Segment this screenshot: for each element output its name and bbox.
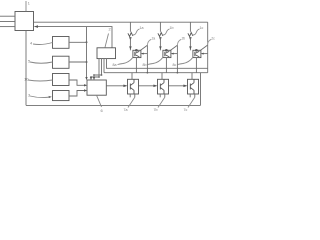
- box C: [53, 74, 70, 86]
- arrowhead jog B: [93, 77, 95, 80]
- phase leg cell a: [113, 22, 156, 112]
- transistor glyph: [165, 51, 170, 57]
- transistor glyph: [135, 51, 140, 57]
- wire emitter down to bus: [195, 58, 197, 73]
- label 8a leader hook: [118, 57, 133, 64]
- svg-text:7c: 7c: [184, 108, 188, 112]
- wire collector diagonal: [140, 45, 148, 51]
- wire collector diagonal: [200, 45, 208, 51]
- switch box Q2: [163, 50, 171, 57]
- left frame wire: [25, 31, 27, 106]
- svg-text:5: 5: [28, 59, 31, 64]
- phase leg cell b: [143, 22, 186, 112]
- box U2 controller: [97, 48, 116, 59]
- arrowhead gate into box: [141, 53, 144, 55]
- wire gate feed: [172, 53, 178, 55]
- wire gate feed: [202, 53, 208, 55]
- thyristor symbol squiggle: [188, 33, 193, 37]
- driver pin stub right: [134, 94, 136, 97]
- wire branch from feedback to center box: [86, 27, 88, 80]
- wire box A out: [69, 41, 87, 43]
- svg-text:2c: 2c: [211, 37, 215, 41]
- driver pin stub left: [189, 94, 191, 97]
- driver pin stub left: [129, 94, 131, 97]
- svg-text:1c: 1c: [200, 26, 204, 30]
- label 2 leader: [105, 34, 109, 48]
- box A: [53, 37, 70, 49]
- wire feedback line into U1: [35, 27, 113, 48]
- wire drop from top bus: [189, 22, 191, 32]
- wire lower bus: [104, 72, 208, 74]
- wire gate feed: [142, 53, 148, 55]
- label 1 leader: [25, 1, 27, 11]
- switch box Q3: [193, 50, 201, 57]
- arrowhead into driver 3: [183, 85, 187, 88]
- label 6 leader: [97, 95, 102, 107]
- node dot on bus: [177, 72, 179, 74]
- arrowhead into switch box: [189, 46, 192, 49]
- thyristor symbol squiggle: [128, 33, 133, 37]
- arrowhead into switch box: [129, 46, 132, 49]
- driver pin stub left: [159, 94, 161, 97]
- wire input phase L1: [0, 15, 15, 17]
- wire box D out: [69, 91, 86, 97]
- wire driver stub: [161, 73, 163, 80]
- label 1a leader wavy: [132, 29, 140, 35]
- label 5 leader: [30, 62, 53, 63]
- switch box Q1: [133, 50, 141, 57]
- arrowhead into center box top: [85, 77, 87, 80]
- wire box C out: [69, 80, 86, 85]
- gate circle: [166, 49, 168, 51]
- phase leg cell c: [173, 22, 216, 112]
- node dot A: [98, 76, 100, 78]
- arrowhead down on drop: [159, 37, 162, 40]
- svg-text:6: 6: [101, 108, 104, 113]
- svg-text:2b: 2b: [182, 37, 186, 41]
- svg-text:1b: 1b: [170, 26, 174, 30]
- label 4 leader: [33, 43, 53, 45]
- driver transistor glyph: [160, 79, 164, 94]
- driver pin stub right: [194, 94, 196, 97]
- wire drop to switch box: [189, 37, 191, 50]
- wire box B out: [69, 61, 87, 63]
- svg-text:4: 4: [30, 41, 33, 46]
- box B: [53, 56, 70, 68]
- bottom frame wire: [26, 104, 201, 106]
- svg-text:3: 3: [28, 93, 31, 98]
- label 8b leader hook: [148, 57, 163, 64]
- arrowhead C into center box: [84, 84, 87, 86]
- label 1b leader wavy: [162, 29, 170, 35]
- arrowhead down on drop: [129, 37, 132, 40]
- driver box G1: [128, 79, 139, 94]
- node dot on bus: [147, 72, 149, 74]
- wire emitter down to bus: [135, 58, 137, 73]
- tick at stub top: [177, 39, 181, 45]
- arrowhead jog A: [90, 77, 92, 80]
- wire right branch vertical: [176, 45, 178, 72]
- svg-text:10: 10: [24, 77, 29, 82]
- label 7a leader: [128, 97, 135, 107]
- node dot D: [90, 76, 92, 78]
- label 1c leader wavy: [192, 29, 200, 35]
- svg-text:8c: 8c: [173, 63, 177, 67]
- wire input phase L2: [0, 21, 15, 23]
- svg-text:1a: 1a: [140, 26, 144, 30]
- driver transistor glyph: [130, 79, 134, 94]
- label 8c leader hook: [178, 57, 193, 64]
- wire U3 out to driver chain: [106, 85, 126, 87]
- gate circle: [136, 49, 138, 51]
- wire emitter down to bus: [165, 58, 167, 73]
- box D: [53, 91, 70, 101]
- wire U2 pin jog B: [94, 59, 102, 80]
- svg-text:1: 1: [28, 2, 30, 6]
- wire driver2 to driver3: [169, 85, 187, 87]
- transistor glyph: [195, 51, 200, 57]
- wire drop from top bus: [159, 22, 161, 32]
- wire collector diagonal: [170, 45, 178, 51]
- driver transistor glyph: [190, 79, 194, 94]
- label 7c leader: [188, 97, 195, 107]
- wire drop from top bus: [129, 22, 131, 32]
- right frame wire upper: [207, 22, 209, 72]
- label 10 leader: [28, 80, 53, 81]
- svg-text:8b: 8b: [143, 63, 147, 67]
- svg-text:7b: 7b: [154, 108, 158, 112]
- driver pin stub right: [164, 94, 166, 97]
- arrowhead into U1: [34, 25, 38, 28]
- driver box G2: [158, 79, 169, 94]
- tick at stub top: [147, 39, 151, 45]
- arrowhead gate into box: [171, 53, 174, 55]
- wire aux line from U2: [107, 59, 208, 69]
- svg-text:8a: 8a: [113, 63, 117, 67]
- arrowhead down on drop: [189, 37, 192, 40]
- node dot B: [101, 74, 103, 76]
- arrowhead gate into box: [201, 53, 204, 55]
- wire driver stub: [191, 73, 193, 80]
- wire drop to switch box: [159, 37, 161, 50]
- box U1 main input unit: [15, 12, 34, 31]
- wire top bus: [34, 21, 208, 23]
- right frame wire lower: [200, 73, 202, 106]
- label 2c leader hook: [207, 39, 211, 45]
- svg-text:7a: 7a: [124, 108, 128, 112]
- wire U2 pin to lower bus: [103, 59, 105, 73]
- svg-text:2a: 2a: [152, 37, 156, 41]
- arrowhead D into center box: [84, 89, 87, 91]
- arrowhead into driver 1: [123, 85, 127, 88]
- label 3 leader: [30, 96, 51, 98]
- node junction on branch: [86, 41, 88, 43]
- gate circle: [196, 49, 198, 51]
- node dot box B out: [86, 61, 88, 63]
- wire input phase L3: [0, 26, 15, 28]
- wire right branch vertical: [146, 45, 148, 72]
- arrowhead label 3 into box D: [49, 96, 52, 98]
- node dot C: [93, 74, 95, 76]
- driver box G3: [188, 79, 199, 94]
- box U3 central modulator: [87, 80, 106, 95]
- thyristor symbol squiggle: [158, 33, 163, 37]
- arrowhead into switch box: [159, 46, 162, 49]
- label 7b leader: [158, 97, 165, 107]
- arrowhead into driver 2: [153, 85, 157, 88]
- wire U2 pin jog A: [91, 59, 99, 80]
- svg-text:2: 2: [109, 27, 112, 32]
- wire driver1 to driver2: [139, 85, 157, 87]
- wire drop to switch box: [129, 37, 131, 50]
- wire driver stub: [131, 73, 133, 80]
